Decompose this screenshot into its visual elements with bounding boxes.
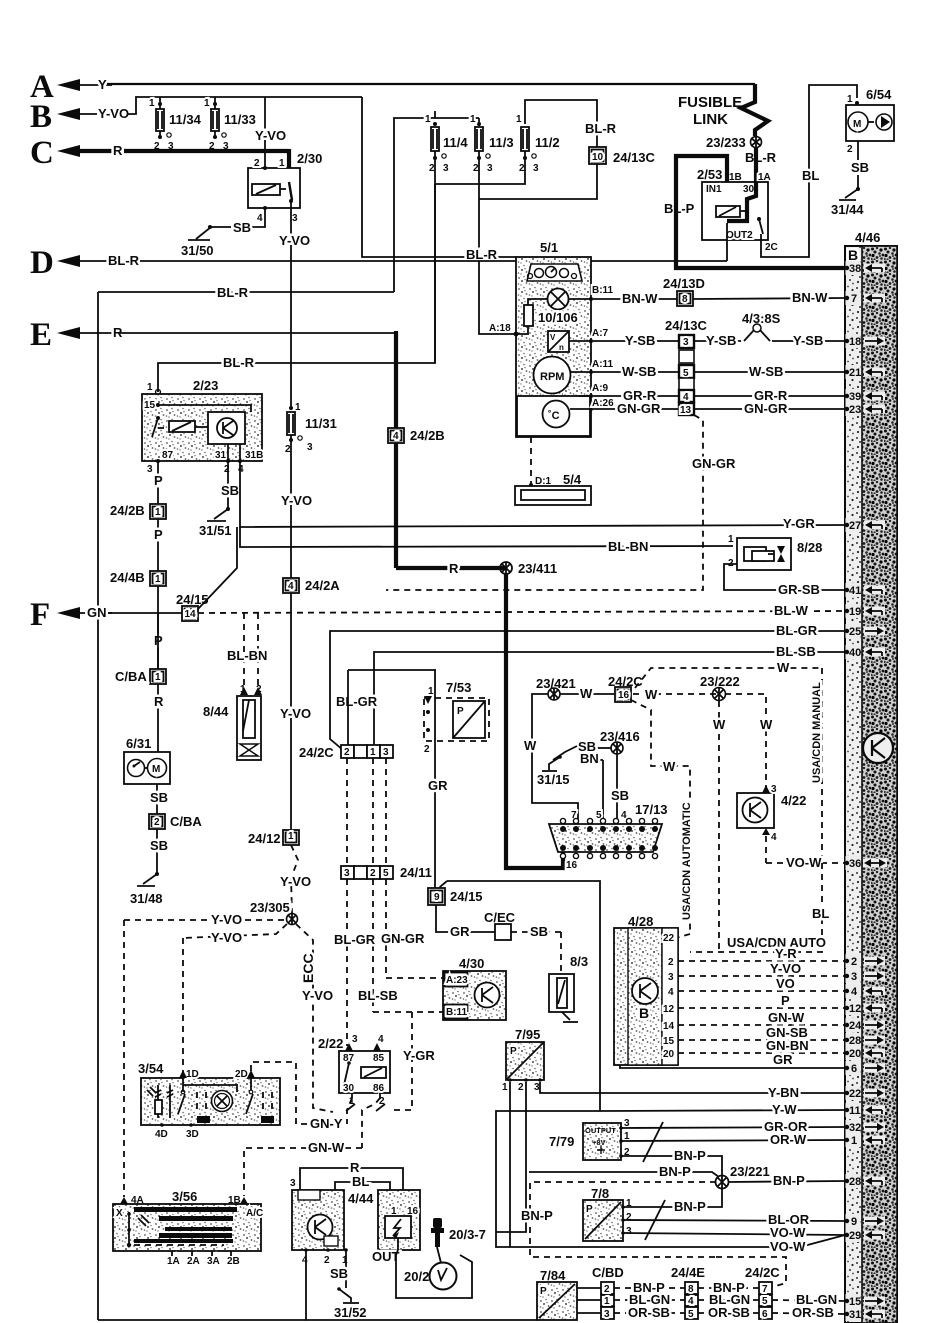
svg-text:8/28: 8/28 (797, 540, 822, 555)
svg-text:Y-R: Y-R (775, 946, 797, 961)
svg-text:20/2: 20/2 (404, 1269, 429, 1284)
wire Y-W loop (496, 1102, 845, 1254)
svg-text:BL-BN: BL-BN (227, 648, 267, 663)
connector 24/2C 16 (608, 660, 823, 934)
pump 6/54 (846, 87, 894, 189)
svg-text:4: 4 (683, 392, 689, 403)
wire Y-VO from 2/30 pin3 (279, 208, 310, 406)
svg-text:1: 1 (204, 98, 210, 109)
wire Y bus (107, 83, 755, 85)
wire BL-R row2 (98, 285, 394, 1320)
connector 24/4E column (671, 1265, 705, 1320)
svg-text:8/3: 8/3 (570, 954, 588, 969)
svg-text:2C: 2C (765, 242, 778, 253)
svg-text:n: n (559, 343, 564, 352)
svg-text:20: 20 (663, 1049, 675, 1060)
4/46 pin 27 (845, 518, 885, 532)
svg-text:SB: SB (233, 220, 251, 235)
svg-text:R: R (449, 561, 459, 576)
svg-text:OR-SB: OR-SB (792, 1305, 834, 1320)
pump 6/31 (124, 736, 170, 784)
svg-text:14: 14 (663, 1021, 675, 1032)
svg-text:W: W (580, 686, 593, 701)
svg-text:25: 25 (849, 626, 861, 638)
connector 24/13C 10 (466, 121, 656, 334)
svg-text:Y-SB: Y-SB (706, 333, 736, 348)
row arrow A (30, 69, 755, 105)
svg-text:4/22: 4/22 (781, 793, 806, 808)
svg-text:BL: BL (812, 906, 829, 921)
svg-text:6: 6 (851, 1063, 857, 1075)
row arrow F (30, 597, 183, 633)
wire 2C to BL (727, 85, 857, 261)
4/46 pin 39 (845, 389, 885, 403)
svg-text:E: E (30, 317, 52, 353)
svg-text:1: 1 (288, 831, 294, 842)
svg-text:24/4E: 24/4E (671, 1265, 705, 1280)
svg-text:2: 2 (344, 747, 350, 758)
svg-text:BN-P: BN-P (773, 1173, 805, 1188)
wire fuse outputs (435, 158, 525, 184)
fuse 11/34 (149, 97, 202, 152)
svg-text:GN-BN: GN-BN (766, 1038, 809, 1053)
svg-text:7/84: 7/84 (540, 1268, 566, 1283)
svg-text:4: 4 (668, 987, 674, 998)
svg-text:5: 5 (688, 1309, 694, 1320)
svg-text:GN-W: GN-W (768, 1010, 805, 1025)
svg-text:9: 9 (434, 892, 440, 903)
svg-text:C/EC: C/EC (484, 910, 516, 925)
svg-text:17/13: 17/13 (635, 802, 668, 817)
relay 4/22 (676, 784, 845, 952)
svg-text:2/30: 2/30 (297, 151, 322, 166)
connector 24/13D 8 (593, 276, 845, 306)
relay 2/23 (142, 378, 263, 475)
svg-text:GN: GN (87, 605, 107, 620)
splice 23/421 and W network (524, 676, 616, 820)
connector 4/46 bar (845, 230, 897, 1323)
svg-text:A:9: A:9 (592, 383, 609, 394)
svg-text:31/44: 31/44 (831, 202, 864, 217)
wires 4/28 to 4/46 (620, 946, 845, 1068)
svg-text:11: 11 (849, 1105, 861, 1117)
svg-text:2: 2 (851, 956, 857, 968)
svg-text:GR: GR (773, 1052, 793, 1067)
svg-text:IN1: IN1 (706, 184, 722, 195)
svg-text:A:11: A:11 (592, 359, 614, 370)
svg-text:OR-SB: OR-SB (708, 1305, 750, 1320)
svg-text:P: P (154, 527, 163, 542)
svg-text:3: 3 (668, 972, 674, 983)
relay 2/30 (248, 151, 322, 224)
svg-text:BN-W: BN-W (792, 290, 828, 305)
svg-text:5/4: 5/4 (563, 472, 582, 487)
connector 24/15 14 (176, 527, 845, 621)
relay 2/22 (318, 1034, 390, 1148)
svg-text:7: 7 (762, 1284, 768, 1295)
wire 11/2 pin1 to 24/13C (525, 100, 597, 147)
svg-text:31/52: 31/52 (334, 1305, 367, 1320)
svg-text:1: 1 (147, 382, 153, 393)
svg-text:85: 85 (373, 1053, 385, 1064)
svg-text:4/44: 4/44 (348, 1191, 374, 1206)
svg-text:7/79: 7/79 (549, 1134, 574, 1149)
svg-text:Y-SB: Y-SB (793, 333, 823, 348)
svg-text:BL: BL (802, 168, 819, 183)
svg-text:7/53: 7/53 (446, 680, 471, 695)
svg-text:24/15: 24/15 (176, 592, 209, 607)
svg-text:31B: 31B (245, 450, 263, 461)
svg-text:M: M (152, 764, 160, 775)
svg-text:7/8: 7/8 (591, 1186, 609, 1201)
svg-text:3: 3 (307, 442, 313, 453)
svg-text:24/12: 24/12 (248, 831, 281, 846)
row arrow E (30, 317, 396, 353)
wire dashed 4A column (123, 920, 125, 1197)
distributor 20/2 (396, 1250, 472, 1298)
4/46 pin 3 (845, 969, 885, 983)
svg-text:GN-GR: GN-GR (744, 401, 788, 416)
svg-text:A/C: A/C (246, 1208, 263, 1219)
ignition module 7/8 (521, 1182, 845, 1287)
svg-text:3A: 3A (207, 1256, 220, 1267)
svg-text:3: 3 (487, 163, 493, 174)
svg-text:5: 5 (383, 868, 389, 879)
spark plugs 20/3-7 (431, 1218, 486, 1263)
svg-text:Y-VO: Y-VO (770, 961, 801, 976)
wire dashed 1D column (182, 938, 184, 1073)
svg-text:30: 30 (343, 1083, 355, 1094)
4/46 pin 24 (845, 1018, 885, 1032)
svg-text:22: 22 (663, 933, 675, 944)
svg-text:1: 1 (342, 1255, 348, 1266)
svg-text:B: B (848, 247, 858, 263)
4/46 pin 22 (845, 1086, 885, 1100)
svg-text:Y-GR: Y-GR (403, 1048, 435, 1063)
amplifier 7/79 (549, 1118, 845, 1176)
wire Y-VO to relay 2/30 pin 2 (255, 97, 516, 257)
svg-text:1: 1 (155, 574, 161, 585)
svg-text:F: F (30, 597, 50, 633)
connector C/EC (436, 905, 561, 974)
svg-text:BL-GR: BL-GR (334, 932, 376, 947)
connector 24/2C row (299, 694, 393, 760)
svg-text:3: 3 (383, 747, 389, 758)
relay 2/53 (697, 167, 778, 253)
svg-text:R: R (113, 143, 123, 158)
connector 17/13 (549, 802, 693, 920)
svg-text:A:23: A:23 (446, 975, 468, 986)
svg-text:24/13C: 24/13C (665, 318, 708, 333)
4/46 pin 41 (845, 583, 885, 597)
svg-text:4: 4 (288, 581, 294, 592)
ground 31/48 chain (130, 784, 202, 906)
svg-text:30: 30 (743, 184, 755, 195)
svg-text:1: 1 (155, 672, 161, 683)
svg-text:29: 29 (849, 1230, 861, 1242)
svg-text:SB: SB (221, 483, 239, 498)
svg-text:SB: SB (150, 790, 168, 805)
svg-text:VO-W: VO-W (770, 1239, 806, 1254)
svg-text:18: 18 (849, 336, 861, 348)
4/46 pin 9 (845, 1214, 885, 1228)
svg-text:Y-VO: Y-VO (302, 988, 333, 1003)
svg-text:12: 12 (663, 1004, 675, 1015)
4/46 pin 6 (845, 1061, 885, 1075)
svg-text:1: 1 (155, 507, 161, 518)
svg-text:3: 3 (851, 971, 857, 983)
splitter 4/3:8S (742, 311, 781, 341)
svg-text:23/416: 23/416 (600, 729, 640, 744)
svg-text:P: P (457, 706, 464, 717)
svg-text:BL-R: BL-R (217, 285, 249, 300)
ground 31/52 (330, 1250, 367, 1320)
svg-text:P: P (510, 1046, 517, 1057)
svg-text:Y-W: Y-W (772, 1102, 797, 1117)
svg-text:Y-BN: Y-BN (768, 1085, 799, 1100)
svg-text:23/233: 23/233 (706, 135, 746, 150)
svg-text:A:18: A:18 (489, 323, 511, 334)
svg-text:36: 36 (849, 858, 861, 870)
svg-text:15: 15 (849, 1296, 861, 1308)
svg-text:31/50: 31/50 (181, 243, 214, 258)
svg-text:SB: SB (611, 788, 629, 803)
connector C/BA 1 (115, 613, 166, 752)
instrument cluster 5/1 (516, 240, 591, 437)
row arrow B (30, 97, 362, 135)
svg-text:BL-SB: BL-SB (358, 988, 398, 1003)
svg-text:V: V (550, 333, 556, 342)
4/46 pin 28 (845, 1174, 885, 1188)
svg-text:87: 87 (162, 450, 174, 461)
svg-text:24/2B: 24/2B (110, 503, 145, 518)
svg-text:1: 1 (847, 94, 853, 105)
wire 2/23 pin4 to Y-GR pin27 (240, 461, 845, 531)
svg-text:20: 20 (849, 1048, 861, 1060)
svg-text:BL: BL (352, 1174, 369, 1189)
4/46 pin 23 (845, 402, 885, 416)
wire 24/2C feeds (348, 670, 436, 745)
svg-text:20/3-7: 20/3-7 (449, 1227, 486, 1242)
temp gauge (517, 383, 614, 436)
4/46 pin 28 (845, 1033, 885, 1047)
svg-text:1: 1 (470, 114, 476, 125)
amplifier 4/30 (373, 956, 506, 1110)
wire P column (110, 461, 166, 669)
svg-text:24/15: 24/15 (450, 889, 483, 904)
svg-text:X: X (116, 1208, 123, 1219)
svg-text:31: 31 (215, 450, 227, 461)
svg-text:4: 4 (393, 431, 399, 442)
svg-text:Y-VO: Y-VO (279, 233, 310, 248)
svg-text:GN-Y: GN-Y (310, 1116, 343, 1131)
svg-text:4/28: 4/28 (628, 914, 653, 929)
svg-text:C/BA: C/BA (115, 669, 147, 684)
svg-text:W: W (760, 717, 773, 732)
svg-text:5/1: 5/1 (540, 240, 558, 255)
svg-text:14: 14 (185, 609, 197, 620)
fuses 11/4 11/3 11/2 (394, 100, 597, 363)
valve 8/44 (203, 613, 267, 760)
svg-text:4: 4 (302, 1255, 308, 1266)
switch 3/54 (138, 1061, 280, 1140)
svg-text:SB: SB (530, 924, 548, 939)
connector C/BD column (592, 1265, 624, 1320)
row arrow D (30, 245, 727, 281)
svg-text:15: 15 (663, 1036, 675, 1047)
svg-text:OUTPUT: OUTPUT (585, 1126, 616, 1135)
svg-text:OR-SB: OR-SB (628, 1305, 670, 1320)
svg-text:3: 3 (604, 1309, 610, 1320)
svg-text:7: 7 (851, 293, 857, 305)
4/46 pin 2 (845, 954, 885, 968)
4/46 pin 40 (845, 645, 885, 659)
svg-text:11/3: 11/3 (489, 135, 514, 150)
svg-text:GN-W: GN-W (308, 1140, 345, 1155)
svg-text:Y-VO: Y-VO (211, 912, 242, 927)
control unit 4/28 (614, 914, 678, 1065)
amplifier 4/44 (290, 1160, 403, 1266)
svg-text:Y-VO: Y-VO (98, 106, 129, 121)
4/46 pin 20 (845, 1046, 885, 1060)
svg-text:˚C: ˚C (548, 410, 560, 422)
valve 8/28 (724, 534, 845, 597)
svg-text:USA/CDN AUTOMATIC: USA/CDN AUTOMATIC (681, 802, 693, 920)
svg-text:4: 4 (257, 213, 263, 224)
4/46 pin 29 (845, 1228, 885, 1242)
connector 24/2A 4 (280, 578, 340, 830)
pressure sensor 7/95 (496, 1027, 845, 1247)
svg-text:C/BD: C/BD (592, 1265, 624, 1280)
svg-text:VO-W: VO-W (770, 1225, 806, 1240)
svg-text:2/53: 2/53 (697, 167, 722, 182)
svg-text:3/56: 3/56 (172, 1189, 197, 1204)
voltage stabilizer (548, 328, 609, 352)
wire bottom loop (98, 1250, 537, 1320)
svg-text:BN-P: BN-P (659, 1164, 691, 1179)
svg-text:W: W (524, 738, 537, 753)
svg-text:6/54: 6/54 (866, 87, 892, 102)
svg-text:BL-R: BL-R (745, 150, 777, 165)
svg-text:BL-SB: BL-SB (776, 644, 816, 659)
splice 23/233 (706, 135, 777, 182)
svg-text:A:7: A:7 (592, 328, 609, 339)
svg-text:R: R (154, 694, 164, 709)
svg-text:40: 40 (849, 647, 861, 659)
svg-text:2: 2 (518, 1082, 524, 1093)
svg-text:1: 1 (279, 158, 285, 169)
row arrow C (30, 135, 292, 183)
svg-text:24/4B: 24/4B (110, 570, 145, 585)
svg-text:4D: 4D (155, 1129, 168, 1140)
svg-text:W: W (663, 759, 676, 774)
svg-text:Y-GR: Y-GR (783, 516, 815, 531)
svg-text:21: 21 (849, 367, 861, 379)
svg-text:39: 39 (849, 391, 861, 403)
4/46 pin 11 (845, 1103, 885, 1117)
svg-text:Y-VO: Y-VO (280, 706, 311, 721)
fuse 11/33 (204, 97, 256, 152)
svg-text:28: 28 (849, 1035, 861, 1047)
svg-text:24/2C: 24/2C (299, 745, 334, 760)
svg-text:FUSIBLE: FUSIBLE (678, 94, 742, 111)
svg-text:15: 15 (144, 400, 156, 411)
svg-text:BL-R: BL-R (108, 253, 140, 268)
tachometer RPM (534, 357, 614, 394)
connector 24/13C column (665, 318, 708, 416)
svg-text:BL-GR: BL-GR (776, 623, 818, 638)
svg-text:23/221: 23/221 (730, 1164, 770, 1179)
splice 23/221 (529, 1164, 845, 1189)
svg-text:4: 4 (238, 464, 244, 475)
svg-text:24/2A: 24/2A (305, 578, 340, 593)
svg-text:ECC: ECC (300, 953, 316, 983)
wire R bold (124, 149, 289, 153)
svg-text:LINK: LINK (693, 111, 728, 128)
svg-text:2: 2 (370, 868, 376, 879)
svg-text:31/48: 31/48 (130, 891, 163, 906)
svg-text:GR: GR (450, 924, 470, 939)
svg-text:2: 2 (847, 144, 853, 155)
relay 7/53 (424, 670, 489, 893)
svg-text:BN-P: BN-P (674, 1148, 706, 1163)
svg-text:16: 16 (618, 690, 630, 701)
svg-text:32: 32 (849, 1122, 861, 1134)
svg-text:1: 1 (502, 1082, 508, 1093)
svg-text:3: 3 (533, 163, 539, 174)
svg-text:D: D (30, 245, 54, 281)
svg-text:BL-BN: BL-BN (608, 539, 648, 554)
4/46 pin 21 (845, 365, 885, 379)
svg-text:2: 2 (154, 817, 160, 828)
svg-text:38: 38 (849, 263, 861, 275)
svg-text:VO: VO (776, 976, 795, 991)
svg-text:3: 3 (771, 784, 777, 795)
ground 31/51 (199, 461, 239, 538)
svg-text:P: P (540, 1286, 547, 1297)
svg-text:31: 31 (849, 1309, 861, 1321)
svg-text:BN-P: BN-P (674, 1199, 706, 1214)
svg-text:W-SB: W-SB (622, 364, 656, 379)
svg-text:6/31: 6/31 (126, 736, 151, 751)
svg-text:23/222: 23/222 (700, 674, 740, 689)
svg-text:R: R (350, 1160, 360, 1175)
svg-text:5: 5 (762, 1296, 768, 1307)
svg-text:Y-VO: Y-VO (211, 930, 242, 945)
svg-text:4: 4 (851, 986, 858, 998)
svg-text:6: 6 (762, 1309, 768, 1320)
svg-text:OUT2: OUT2 (726, 230, 753, 241)
svg-text:BL-W: BL-W (774, 603, 809, 618)
bottom row wires (614, 1280, 845, 1320)
svg-text:P: P (586, 1204, 593, 1215)
svg-text:23/411: 23/411 (518, 561, 557, 576)
connector 24/15 9 (428, 881, 600, 1111)
wire BL-P bold loop to pin38 (664, 156, 845, 268)
svg-text:2/22: 2/22 (318, 1036, 343, 1051)
4/46 pin 32 (845, 1120, 885, 1134)
svg-text:C: C (30, 135, 54, 171)
4/46 pin 18 (845, 334, 885, 348)
svg-text:W-SB: W-SB (749, 364, 783, 379)
svg-text:BN: BN (580, 751, 599, 766)
svg-text:VO-W: VO-W (786, 855, 822, 870)
svg-text:10/106: 10/106 (538, 310, 578, 325)
svg-text:P: P (781, 993, 790, 1008)
svg-text:3D: 3D (186, 1129, 199, 1140)
transistor symbol in 4/46 (863, 733, 893, 763)
svg-text:2: 2 (668, 957, 674, 968)
